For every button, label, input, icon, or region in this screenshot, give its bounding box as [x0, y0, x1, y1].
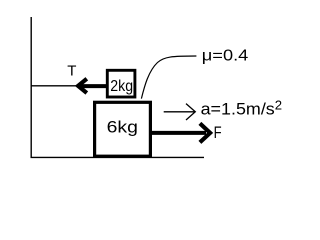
wire: thin rope line from wall to T arrow tip — [31, 85, 78, 87]
svg-text:μ=0.4: μ=0.4 — [202, 48, 249, 65]
block 2kg — [107, 70, 135, 97]
wall — [30, 17, 32, 158]
svg-text:F: F — [214, 123, 222, 142]
force arrow F (thick, pointing right) — [152, 123, 210, 142]
acceleration arrow (thin) — [164, 104, 196, 120]
block 6kg — [95, 102, 151, 156]
svg-text:2kg: 2kg — [110, 78, 133, 95]
svg-text:6kg: 6kg — [107, 117, 138, 136]
leader curve to friction interface — [141, 56, 196, 99]
svg-text:a=1.5m/s2: a=1.5m/s2 — [201, 99, 283, 119]
tension arrow T (thick, pointing left) — [78, 79, 107, 93]
floor — [31, 156, 205, 158]
svg-text:T: T — [67, 62, 76, 79]
